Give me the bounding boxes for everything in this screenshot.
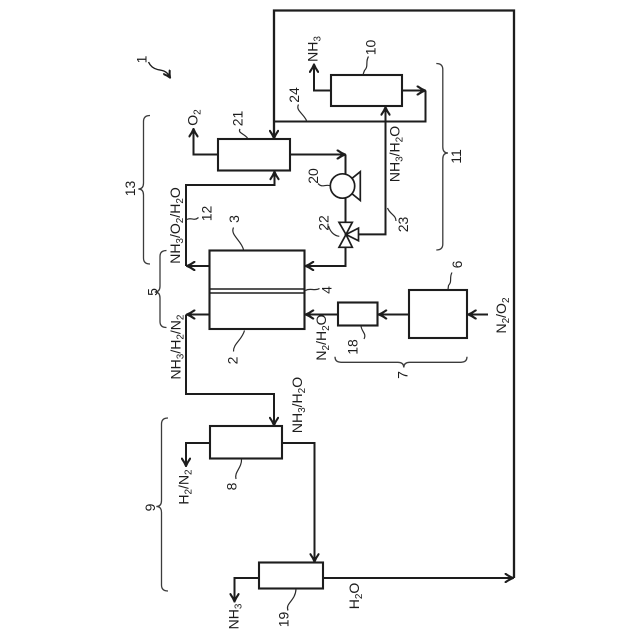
- svg-text:24: 24: [286, 87, 302, 103]
- leader 6: [448, 273, 452, 290]
- leader 8: [236, 459, 242, 479]
- wire valve bottom to box3: [306, 247, 346, 266]
- wire NH3 out of box10: [314, 65, 331, 91]
- svg-text:7: 7: [395, 371, 411, 379]
- valve 22: [339, 222, 359, 247]
- leader 22: [329, 226, 340, 236]
- svg-text:6: 6: [449, 260, 465, 268]
- wire down to pump: [345, 155, 347, 177]
- svg-text:8: 8: [224, 482, 240, 490]
- leader 3: [233, 228, 244, 250]
- svg-text:N2/H2O: N2/H2O: [313, 314, 332, 360]
- svg-text:O2: O2: [185, 109, 204, 126]
- svg-text:4: 4: [319, 286, 335, 294]
- svg-text:NH3/O2/H2O: NH3/O2/H2O: [167, 187, 186, 264]
- box 18: [338, 303, 378, 326]
- wire NH3 out of box19: [235, 578, 260, 602]
- svg-text:1: 1: [134, 55, 150, 63]
- wire box21 to pump, arrow at corner: [290, 154, 345, 156]
- brace 7: [335, 357, 467, 368]
- svg-text:H2O: H2O: [346, 583, 365, 610]
- wire 12 up right and into box21: [186, 172, 275, 266]
- leader 23: [388, 208, 397, 221]
- svg-text:22: 22: [316, 215, 332, 231]
- svg-text:10: 10: [363, 40, 379, 56]
- svg-text:9: 9: [142, 503, 158, 511]
- wire out of box2: [187, 314, 210, 316]
- box 19: [259, 563, 323, 589]
- svg-text:12: 12: [199, 206, 215, 222]
- svg-text:2: 2: [225, 356, 241, 364]
- wire 12 out of box3: [187, 265, 210, 267]
- svg-text:18: 18: [345, 339, 361, 355]
- svg-text:21: 21: [230, 111, 246, 127]
- wire 24 down and left: [275, 91, 426, 122]
- leader 10: [363, 57, 368, 75]
- box 3 and box 2 combined: [210, 251, 305, 330]
- svg-text:13: 13: [122, 181, 138, 197]
- brace 5: [155, 251, 167, 328]
- wire H2/N2 out of box8: [186, 443, 210, 466]
- wire 23 valve to box10: [359, 107, 386, 234]
- leader 21: [239, 129, 247, 138]
- wire box6 to box18: [379, 314, 409, 316]
- wire pump to valve: [345, 197, 347, 223]
- box 21: [218, 139, 290, 171]
- leader 24: [298, 105, 307, 121]
- wire outer loop: box19 right to right edge: [323, 577, 513, 579]
- box 10: [331, 75, 402, 106]
- brace 13: [138, 116, 150, 265]
- svg-text:NH3: NH3: [305, 36, 324, 62]
- svg-text:3: 3: [226, 215, 242, 223]
- svg-text:NH3/H2O: NH3/H2O: [289, 377, 308, 433]
- svg-text:19: 19: [276, 612, 292, 628]
- svg-text:11: 11: [448, 149, 464, 164]
- svg-text:H2/N2: H2/N2: [176, 469, 195, 505]
- leader 4: [306, 289, 320, 291]
- wire O2 out of box21: [194, 129, 219, 155]
- svg-text:NH3: NH3: [226, 603, 245, 629]
- box 6: [409, 290, 467, 338]
- pump 20: [330, 172, 360, 201]
- box 8: [210, 426, 282, 459]
- svg-text:N2/O2: N2/O2: [493, 297, 512, 333]
- brace 11: [436, 64, 448, 251]
- wire outer loop right edge: [274, 11, 514, 579]
- wire 24 from box10 right: [402, 90, 425, 92]
- wire down right into box8: [186, 315, 274, 426]
- brace 9: [156, 418, 168, 591]
- svg-text:5: 5: [145, 288, 161, 296]
- svg-text:NH3/H2/N2: NH3/H2/N2: [168, 314, 187, 379]
- leader 20: [318, 184, 331, 187]
- wire box8 to box19: [282, 443, 315, 562]
- wire box18 to box2: [306, 314, 338, 316]
- leader 19: [287, 589, 296, 611]
- leader 2: [233, 331, 244, 352]
- svg-text:NH3/H2O: NH3/H2O: [387, 126, 406, 182]
- svg-text:23: 23: [395, 217, 411, 233]
- wire outer loop left drop into box21: [273, 122, 275, 139]
- leader 12: [187, 218, 199, 220]
- wire N2/O2 feed into box6: [468, 314, 488, 316]
- leader for label 1 (curved arrow): [149, 62, 171, 78]
- svg-text:20: 20: [305, 168, 321, 184]
- leader 18: [361, 326, 365, 339]
- membrane 4 double line: [210, 289, 305, 293]
